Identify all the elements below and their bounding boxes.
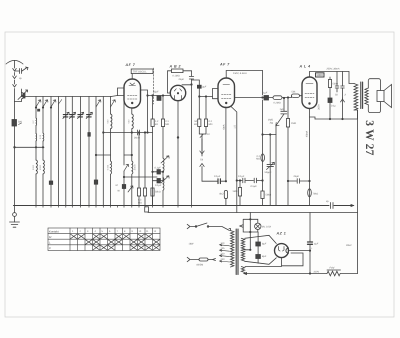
svg-text:500: 500 [18,121,23,124]
AVC line with capacitor 20cm [103,130,153,140]
wave band switches on tuner wires [35,100,115,112]
coil 0.2 [32,118,37,141]
svg-text:Kontakt: Kontakt [49,229,59,233]
svg-text:6000: 6000 [39,164,42,170]
resistor 50k grid stopper [287,91,302,99]
capacitor 4uF in bus [331,203,334,209]
svg-text:0.2MΩ: 0.2MΩ [274,102,281,105]
pilot lamp [240,219,272,233]
wires below V1 [138,132,145,188]
node 10 [199,133,210,151]
svg-text:150V, 6.5mA: 150V, 6.5mA [233,72,247,75]
svg-text:1MΩ: 1MΩ [232,190,237,193]
oscillator coil [161,156,169,206]
svg-text:5000: 5000 [32,164,35,170]
svg-text:3µF: 3µF [202,86,207,89]
table text [49,229,157,250]
svg-text:3 W 27: 3 W 27 [363,120,375,155]
svg-text:MΩ: MΩ [138,201,142,204]
svg-text:500: 500 [128,119,131,123]
resistor 0.1M ohm of V2 [172,69,184,78]
resistor 50k to chassis [261,181,271,206]
resistor 0.2M grid AL4 [273,96,288,105]
tube V3 AF7 [218,78,235,108]
svg-text:0.5µF: 0.5µF [251,185,258,188]
svg-text:MΩ: MΩ [209,123,213,126]
mains transformer core [236,229,238,275]
wire AVC line [14,147,44,149]
tube V4 AL4 [302,77,317,109]
wire AB2 cathode to chassis [177,101,179,206]
pickup jack TB [200,139,204,181]
resistor 500 on antenna lead [12,120,23,127]
cathode of AL4 [306,109,310,206]
svg-text:80/5M: 80/5M [197,263,204,266]
oscillator coil 10000 [124,133,137,206]
terminal and ground [10,206,20,228]
link wire and coil 0.004 [95,154,111,174]
bus 2 [148,212,358,214]
grid box of V1 [111,88,124,97]
volume potentiometer 1M log [262,114,284,206]
resistor 70k cathode [308,189,319,197]
svg-text:50k: 50k [292,91,297,94]
cathode feedback line [310,98,358,120]
fuse 80/5M [187,257,215,266]
svg-text:TRF.OSCILL: TRF.OSCILL [133,70,148,73]
svg-text:110: 110 [221,242,225,245]
svg-text:50kΩ: 50kΩ [155,191,161,194]
svg-text:310V: 310V [314,271,320,274]
svg-text:AZ 1: AZ 1 [276,232,287,236]
svg-text:A L 4: A L 4 [299,65,311,69]
capacitor 8uF lower [256,255,267,259]
svg-text:0.1µ: 0.1µ [331,105,336,108]
band switch MW [116,97,134,206]
svg-text:16W: 16W [189,243,195,246]
svg-text:50µF: 50µF [153,90,159,93]
coil 5000 [32,160,37,174]
capacitor 1uF [263,92,274,101]
capacitor 3uF on V2 anode [192,80,207,97]
svg-text:2: 2 [344,94,347,97]
svg-text:25µF: 25µF [293,175,300,178]
screen wire of V3 [222,107,236,213]
tube V5 AZ1 [275,244,289,258]
capacitor 25uF cathode bypass [287,175,310,184]
resistor Feld [327,266,341,276]
svg-text:45mA: 45mA [306,130,309,137]
svg-text:10000: 10000 [134,164,137,171]
resistor 1.2k [151,119,159,127]
tone capacitor 2 [341,72,347,103]
svg-text:0.1µF: 0.1µF [214,175,221,178]
svg-text:240: 240 [221,258,226,261]
contact table [48,228,160,251]
right vertical supply wire [357,110,359,274]
svg-text:A B 2: A B 2 [169,64,182,68]
capacitor 50uF on anode wire [153,90,161,100]
svg-text:5000: 5000 [333,83,339,86]
svg-text:AF 7: AF 7 [125,63,136,67]
anode top wire 250V [310,67,350,77]
svg-text:W: W [118,190,121,193]
svg-text:TB: TB [200,158,203,161]
smoothing capacitor 4uF [308,213,319,275]
coil 6000 [39,160,44,174]
trimmer 50uuF [265,135,275,206]
svg-text:4µ: 4µ [326,200,329,203]
resistor 1M [286,98,296,206]
coupling capacitor 0.1uF [202,175,226,184]
svg-text:Feld: Feld [330,266,335,269]
wire V3 anode to AL4 grid chain [235,97,263,99]
svg-text:0.1µF: 0.1µF [238,175,245,178]
svg-text:10: 10 [207,133,210,136]
antenna lead plugs [13,69,17,102]
oscillator padding capacitors [152,166,164,187]
svg-text:220: 220 [221,253,226,256]
svg-text:3µ: 3µ [19,77,22,80]
svg-text:0.05: 0.05 [39,134,42,139]
svg-text:MΩ: MΩ [256,158,260,161]
capacitor 0.1u screen [328,98,336,119]
box TRF OSCILL [131,69,153,79]
svg-text:1µF: 1µF [263,92,268,95]
screen dropper 5000 [328,77,338,98]
resistor 1000 screen [316,73,325,77]
svg-text:0.1µF: 0.1µF [155,184,162,187]
svg-text:kΩ: kΩ [194,123,197,126]
trimmer capacitors [63,115,91,117]
antenna coil (variable) [15,89,28,102]
antenna [6,60,23,68]
svg-text:+: + [311,247,313,250]
svg-text:AF 7: AF 7 [219,63,230,67]
mains input switch [187,223,229,231]
tube V2 AB2 [170,85,185,100]
svg-text:25µF: 25µF [178,78,185,81]
svg-text:125: 125 [221,247,226,250]
main chassis bus [14,203,354,209]
svg-text:4kΩ: 4kΩ [219,193,224,196]
rectifier wiring [244,213,281,267]
grid box of V3 [213,89,219,99]
capacitor 8uF upper [256,242,267,246]
HT secondary winding [241,238,244,261]
output transformer core [361,82,363,109]
wire V2 anode to V3 [199,96,213,134]
resistor 50k [194,119,201,127]
svg-text:1.5: 1.5 [233,125,236,129]
output transformer primary [349,72,358,120]
svg-text:kΩ: kΩ [155,123,158,126]
resistor 4k [219,181,227,206]
svg-text:8µF: 8µF [262,255,267,258]
resistor 0.2M [204,119,212,127]
resistor 1M to chassis [232,181,241,206]
wire V3 anode branch [262,71,263,181]
svg-text:0.1µF: 0.1µF [155,166,162,169]
resistor 0.2M diode load [256,154,264,162]
anode supply wire 150V [226,71,262,79]
grid capacitor 1uF of AL4 [280,97,287,114]
resistors to chassis [137,188,160,206]
svg-text:0.2: 0.2 [32,120,35,124]
cathode coil 500 of V1 [128,108,134,133]
resistor between buses [145,207,149,212]
table x marks [71,234,160,250]
svg-text:6V, 0.5A: 6V, 0.5A [262,226,271,229]
rectifier output wiring [282,250,311,266]
svg-text:250V, 36mA: 250V, 36mA [326,67,340,70]
speaker [368,79,391,113]
mains transformer primary [229,229,234,267]
coupling line with capacitors [236,175,263,188]
tuner section vertical wires [36,97,111,206]
svg-text:4µF: 4µF [314,243,319,246]
svg-text:265V: 265V [346,244,352,247]
node: top bus of tuner [22,93,112,97]
svg-text:267V: 267V [318,104,321,110]
antenna series capacitor + switch [15,67,29,80]
coil 0.05 [39,133,44,141]
svg-text:MΩ: MΩ [165,123,169,126]
bottom supply line [244,273,358,275]
shield dashed line [153,68,155,104]
svg-text:0.004: 0.004 [107,164,110,170]
heater winding [241,267,244,273]
svg-text:50µµF: 50µµF [265,171,272,174]
wires around V2 [168,71,194,206]
resistor 0.1M [161,119,169,127]
svg-text:6mA: 6mA [222,124,225,129]
svg-text:K: K [49,246,51,250]
tone capacitor 50 [335,72,339,97]
wire V1 anode load [141,90,171,206]
svg-text:1000: 1000 [316,73,323,77]
svg-text:500: 500 [106,119,109,123]
antenna lead to chassis [14,102,16,206]
tube V1 AF7 [124,79,141,108]
output transformer secondary [365,88,368,105]
svg-text:50: 50 [335,94,338,97]
svg-text:8µF: 8µF [262,242,267,245]
mains transformer primary taps [220,242,230,262]
wire junction ticks on chassis bus [36,206,192,208]
svg-text:1MΩ: 1MΩ [291,122,296,125]
wire oscillator link [123,176,157,177]
padder capacitor on wire [49,133,97,185]
svg-text:1µF: 1µF [280,108,285,111]
svg-text:log: log [270,122,274,125]
svg-text:M: M [116,184,118,187]
coil 500 (RF) [106,114,112,129]
svg-text:70kΩ: 70kΩ [313,192,319,195]
